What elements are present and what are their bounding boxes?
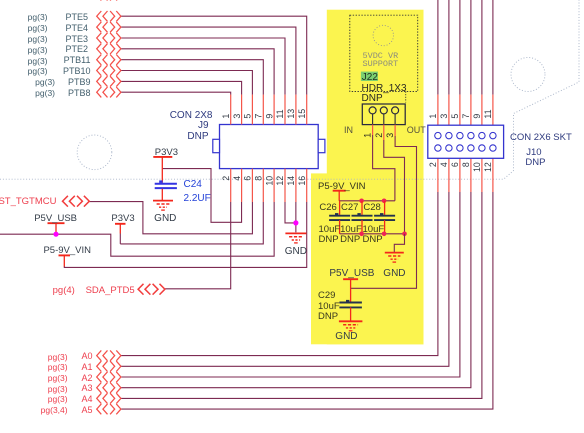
dotted circle inside VR block (373, 25, 393, 45)
wire net P5V_USB to J9 pin10 (0, 202, 274, 256)
J22 pin lead 2 (383, 114, 385, 125)
svg-text:2: 2 (428, 162, 438, 167)
label pg(3) PTE3 (28, 34, 48, 44)
ground symbol GND at C29 (339, 321, 363, 331)
off-page connector chevron PTE4 (97, 22, 121, 32)
J10 top pin wires (to top edge) pins 1,3,5,7,9,11 (438, 0, 493, 95)
off-page connector chevron A2 (97, 372, 121, 382)
J22 pin2 stub (red) (383, 125, 385, 140)
wire J9 pin12 to pin14 GND junction (285, 202, 296, 223)
J22 refdes green highlight (361, 72, 378, 81)
svg-text:10: 10 (472, 162, 482, 172)
svg-text:2: 2 (221, 176, 231, 181)
J10 bottom pin stubs (red) pins 2..12 (438, 148, 493, 192)
C28 top lead (384, 201, 386, 215)
J10 socket circle top col4 (468, 132, 474, 138)
J22 pin lead 1 (372, 114, 374, 125)
off-page connector chevron SDA_PTD5 (138, 284, 165, 295)
J9 left polarization tab (213, 139, 220, 152)
label pg(3) PTE2 (28, 45, 48, 55)
net label RST_TGTMCU (clipped at edge) (0, 196, 57, 207)
power stem P5-9V_VIN yellow (338, 191, 340, 201)
junction dot VIN bus C27 (359, 199, 364, 204)
J10 socket circle bottom col1 (435, 145, 441, 151)
connector J9 CON 2X8 body (220, 125, 319, 169)
label GND at caps (383, 268, 405, 279)
junction dot VIN bus C28 (382, 199, 387, 204)
capacitor C24 plates (155, 184, 177, 188)
J10 socket circle top col1 (435, 132, 441, 138)
off-page connector chevron A3 (97, 383, 121, 393)
J22 pin3 stub (red) (394, 125, 396, 136)
C26 top lead (339, 201, 341, 215)
label pg(3) A1 (48, 362, 68, 372)
label DNP C28 (363, 234, 383, 245)
label pg(3) PTB11 (28, 56, 48, 66)
off-page connector chevron PTE5 (97, 11, 121, 21)
header J22 body (362, 104, 405, 125)
svg-text:13: 13 (286, 109, 296, 119)
label OUT (407, 125, 426, 135)
net name label PTE5 (65, 12, 88, 22)
label pg(3) PTE5 (28, 12, 48, 22)
wire GND bus to ground symbol (394, 234, 404, 253)
highlight yellow block (caps area extension) (311, 173, 424, 344)
off-page connector chevron A4 (97, 393, 121, 403)
J9 top pin stubs (red) pins 1,3,5,7,9,11,13,15 (231, 95, 307, 125)
wire net PTB9 horizontal + drop to J9 (120, 81, 241, 94)
svg-text:9: 9 (264, 114, 274, 119)
power stem P5V_USB (55, 223, 57, 233)
net name label PTE3 (65, 34, 88, 44)
junction dot (magenta) P5V_USB tap (53, 232, 58, 237)
wire net PTB8 horizontal + drop to J9 (120, 92, 230, 94)
net label P3V3 (lower) (111, 213, 134, 224)
svg-text:10: 10 (264, 176, 274, 186)
svg-text:3: 3 (385, 133, 395, 138)
net name label PTE2 (65, 44, 88, 54)
svg-text:4: 4 (439, 162, 449, 167)
J10 socket circle bottom col3 (457, 145, 463, 151)
J22 pin circle 1 (369, 107, 376, 114)
svg-text:5: 5 (243, 114, 253, 119)
J10 socket circle bottom col5 (479, 145, 485, 151)
net label P5-9V_VIN (yellow) (318, 181, 366, 192)
C27 bottom lead (361, 220, 363, 234)
svg-text:7: 7 (461, 114, 471, 119)
J10 socket circle top col2 (446, 132, 452, 138)
net name label PTB8 (68, 88, 91, 98)
label pg(3) A3 (48, 384, 68, 394)
dotted mounting-hole circle right (511, 58, 545, 92)
value 2.2UF C24 (184, 193, 211, 204)
svg-text:1: 1 (428, 114, 438, 119)
net name label A0 (81, 351, 92, 361)
svg-text:5: 5 (450, 114, 460, 119)
off-page connector chevron A0 (97, 350, 121, 360)
wire net PTE2 horizontal + drop to J9 (120, 49, 274, 95)
refdes C29 (318, 290, 335, 301)
C29 bottom lead (350, 307, 352, 321)
wire net A3 horizontal + rise to J10 (120, 192, 471, 388)
power stem P5V_USB to C29 (350, 279, 352, 301)
label pg(3) PTB10 (28, 66, 48, 76)
label DNP J10 (525, 157, 545, 168)
J22 pin circle 2 (380, 107, 387, 114)
off-page connector chevron PTB8 (97, 87, 121, 97)
svg-text:8: 8 (461, 162, 471, 167)
C27 top lead (361, 201, 363, 215)
off-page connector chevron A1 (97, 361, 121, 371)
wire net RST_TGTMCU to J9 pin6 (90, 202, 253, 234)
wire net A4 horizontal + rise to J10 (120, 192, 482, 398)
wire GND bottom bus (340, 233, 405, 235)
net label P5V_USB (34, 213, 77, 224)
C24 bottom lead (161, 189, 163, 201)
off-page connector chevron PTE3 (97, 33, 121, 43)
off-page connector chevron PTB10 (97, 65, 121, 75)
svg-text:11: 11 (275, 109, 285, 118)
label pg(3,4) A5 (41, 405, 68, 415)
svg-text:1: 1 (363, 133, 373, 138)
off-page connector chevron PTB9 (97, 76, 121, 86)
ground symbol GND at J9 pin14 (285, 233, 306, 243)
refdes C28 (363, 202, 380, 213)
wire net SDA_PTD5 from J9 pin2 (165, 202, 231, 289)
wire stem P3V3 lower to bus (119, 234, 121, 244)
connector J10 CON 2X6 SKT body (428, 125, 504, 158)
highlight yellow block (5V VR support area) (327, 10, 424, 345)
svg-text:8: 8 (254, 176, 264, 181)
svg-text:6: 6 (243, 176, 253, 181)
J9 bottom pin stubs (red) pins 2..16 (231, 169, 307, 202)
J10 socket circle bottom col2 (446, 145, 452, 151)
C26 bottom lead (339, 220, 341, 234)
off-page connector chevron PTE2 (97, 44, 121, 54)
svg-text:3: 3 (232, 114, 242, 119)
wire net PTE3 horizontal + drop to J9 (120, 38, 285, 95)
label 5VDC VR (363, 51, 399, 61)
label pg(3) A4 (48, 394, 68, 404)
J9 right polarization tab (318, 139, 325, 152)
refdes C26 (319, 202, 336, 213)
refdes C27 (341, 202, 358, 213)
net name label PTB9 (68, 77, 91, 87)
label DNP J9 (187, 131, 208, 142)
off-page connector chevron PTB11 (97, 55, 121, 65)
J10 socket circle bottom col6 (490, 145, 496, 151)
wire net PTE4 horizontal + drop to J9 (120, 27, 296, 95)
label pg(3) A2 (48, 373, 68, 383)
wire net P5-9V_VIN to J9 pin16 (64, 202, 306, 267)
label DNP J22 (362, 93, 383, 104)
label HDR_1X3 (362, 83, 407, 94)
off-page connector chevron A5 (97, 404, 121, 414)
capacitor C29 plates (339, 303, 362, 308)
svg-text:14: 14 (286, 176, 296, 186)
J22 pin1 stub (red) (372, 125, 374, 135)
label DNP C26 (319, 234, 339, 245)
wire VIN top bus (339, 200, 395, 202)
capacitor C27 plates (352, 216, 373, 220)
label GND at J9 pin14 (236, 246, 356, 257)
junction dot (magenta) pin12/pin14 (293, 220, 298, 225)
label pg(3) PTB9 (35, 77, 55, 87)
net label P5-9V_VIN (43, 245, 91, 256)
ground symbol GND at C24 (153, 201, 173, 211)
dashed stub below VR block (405, 92, 407, 103)
junction dot GND bus corner (402, 232, 407, 237)
label GND at C29 (335, 331, 357, 342)
wire J22 pin3 (OUT) to P5V_USB (351, 136, 417, 288)
off-page connector chevron RST_TGTMCU (63, 196, 90, 207)
net name label A2 (81, 373, 92, 383)
wire J22 pin2 to GND bus (384, 140, 405, 234)
net name label A1 (81, 362, 92, 372)
svg-text:12: 12 (275, 176, 285, 186)
power symbol bar P5-9V_VIN (59, 254, 71, 256)
refdes J10 (526, 147, 541, 158)
capacitor C28 plates (374, 216, 395, 220)
power symbol bar P5-9V_VIN yellow (333, 190, 346, 192)
svg-text:2: 2 (374, 133, 384, 138)
value 10uF C29 (318, 301, 340, 312)
value 10uF C26 (319, 224, 341, 235)
label CON 2X6 SKT (510, 132, 572, 143)
label pg(3) PTE4 (28, 23, 48, 33)
wire net A2 horizontal + rise to J10 (120, 192, 460, 377)
label pg(4) SDA_PTD5 (53, 285, 75, 296)
J22 pin lead 3 (394, 114, 396, 125)
net name label A3 (81, 383, 92, 393)
svg-text:1: 1 (221, 114, 231, 119)
wire net P3V3 branch to J9 pin4 (162, 169, 241, 223)
capacitor C26 plates (329, 216, 350, 220)
label IN (344, 125, 353, 135)
value 10uF C28 (363, 224, 385, 235)
power symbol bar P5V_USB (48, 222, 65, 224)
wire net A1 horizontal + rise to J10 (120, 192, 449, 366)
J22 pin circle 3 (392, 107, 399, 114)
wire net A5 horizontal + rise to J10 (120, 192, 493, 409)
net label P3V3 (at C24) (155, 147, 178, 158)
svg-text:7: 7 (254, 114, 264, 119)
svg-text:12: 12 (483, 162, 493, 172)
svg-text:6: 6 (450, 162, 460, 167)
net name label A4 (81, 394, 92, 404)
net name label PTE4 (65, 23, 88, 33)
power stem P3V3 lower (119, 224, 121, 234)
wire net A0 horizontal + rise to J10 (120, 192, 438, 356)
svg-text:3: 3 (439, 114, 449, 119)
wire net PTE5 horizontal + drop to J9 (120, 16, 306, 94)
power symbol bar P5V_USB yellow (343, 278, 358, 280)
wire J22 pin1 to VIN bus (373, 135, 395, 201)
J10 socket circle top col3 (457, 132, 463, 138)
svg-text:9: 9 (472, 114, 482, 119)
net label P5V_USB (yellow) (329, 268, 374, 279)
power stem P5-9V_VIN (63, 255, 65, 266)
label DNP C29 (318, 311, 338, 322)
label pg(3) A0 (48, 352, 68, 362)
power symbol bar P3V3 at C24 (153, 156, 172, 158)
label SUPPORT (363, 59, 399, 69)
svg-text:11: 11 (483, 109, 493, 118)
partial chevron of row cut at top edge (97, 0, 121, 1)
refdes C24 (184, 179, 202, 190)
value 10uF C27 (340, 224, 362, 235)
svg-text:16: 16 (297, 176, 307, 186)
net name label PTB10 (63, 66, 91, 76)
dashed block outline 5VDC VR SUPPORT (350, 15, 418, 91)
wire net P3V3 to J9 pin8 (120, 202, 263, 244)
net label SDA_PTD5 (86, 285, 135, 296)
power symbol bar P3V3 lower (115, 223, 126, 225)
wire net PTB10 horizontal + drop to J9 (120, 71, 252, 95)
C28 bottom lead (384, 220, 386, 234)
dotted page boundary line (0, 0, 579, 179)
svg-text:15: 15 (297, 109, 307, 119)
label GND at C24 (105, 213, 225, 224)
net name label PTB11 (64, 55, 91, 65)
junction dot GND bus C28 (382, 232, 387, 237)
refdes J22 (362, 72, 378, 83)
ground symbol GND at caps (385, 253, 404, 263)
junction dot GND bus C27 (359, 232, 364, 237)
power stem P3V3 to C24 (161, 157, 163, 183)
wire net PTB11 horizontal + drop to J9 (120, 60, 263, 95)
svg-text:4: 4 (232, 176, 242, 181)
label DNP C27 (340, 234, 360, 245)
refdes J9 (198, 120, 209, 131)
label pg(3) PTB8 (35, 88, 55, 98)
dotted mounting-hole circle left (77, 135, 112, 170)
J10 socket circle top col5 (479, 132, 485, 138)
wire J9 pin14 to GND symbol (295, 202, 297, 232)
J10 socket circle bottom col4 (468, 145, 474, 151)
net name label A5 (81, 405, 92, 415)
J10 socket circle top col6 (490, 132, 496, 138)
label CON 2X8 (170, 110, 213, 121)
